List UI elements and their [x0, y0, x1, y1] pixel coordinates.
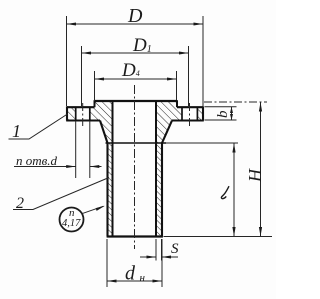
note circle leader arrow [82, 206, 104, 214]
dimension line dn [107, 280, 162, 282]
hatched section: flange left strip [67, 107, 76, 120]
svg-text:1: 1 [12, 121, 21, 141]
hole right: edges [182, 107, 197, 120]
outline: right cone taper [162, 121, 172, 144]
svg-text:n отв.d: n отв.d [16, 153, 58, 168]
dimension line D [67, 23, 204, 25]
extension line: D1 right [188, 46, 190, 106]
label l (rotated) [221, 186, 229, 198]
leader for part 2 [13, 178, 109, 210]
extension line: l top (from taper end across) handled above; extend to 238 [166, 142, 238, 144]
outline: bore left edge [112, 101, 114, 237]
outline: flange bottom right [172, 119, 204, 121]
extension line: D4 left [95, 71, 177, 100]
outline: flange top right [177, 106, 203, 108]
n otv d: extension lines below flange hole [76, 121, 90, 178]
centerline: left hole axis [82, 103, 84, 128]
hatched section: right hub/boss area [156, 101, 182, 143]
svg-text:D4: D4 [121, 60, 140, 81]
s: extension lines below tube [156, 239, 162, 261]
hatched section: right tube wall [156, 143, 162, 237]
hatched section: left tube wall [108, 143, 113, 237]
hole left: edges [76, 107, 90, 120]
extension line: bottom right [164, 236, 273, 238]
outline: bore right edge [155, 101, 157, 237]
svg-text:н: н [140, 272, 146, 284]
extension line: D1 left [81, 46, 83, 106]
svg-text:2: 2 [16, 195, 24, 212]
outline: flange bottom left [66, 119, 100, 121]
outline: flange left side [66, 106, 68, 120]
outline: boss right side [176, 100, 178, 107]
dimension line D1 [82, 52, 189, 54]
n otv d: dimension line with outside arrows [14, 166, 102, 168]
outline: boss left side [94, 100, 96, 107]
dimension line l [233, 143, 235, 237]
svg-text:b: b [215, 110, 231, 118]
centerline: right hole axis [189, 103, 191, 128]
hatched section: right flange strip [197, 107, 203, 120]
extension line: D left [66, 16, 68, 106]
svg-text:d: d [125, 263, 136, 285]
dimension line D4 [95, 78, 177, 80]
dimension line H [260, 102, 262, 237]
dn: extension lines below tube [107, 239, 162, 287]
centerline: main axis [134, 85, 136, 249]
outline: tube outer left wall [106, 143, 108, 237]
svg-text:D: D [127, 5, 143, 27]
centerline: H top extension dash-dot [204, 101, 267, 103]
outline: internal step edge at taper end [106, 142, 167, 144]
outline: flange top left [67, 106, 95, 108]
svg-text:H: H [245, 168, 265, 183]
leader for part 1 [9, 114, 68, 139]
svg-text:S: S [171, 241, 179, 257]
note circle [60, 208, 84, 232]
s: dimension line with outside arrows [140, 256, 178, 258]
svg-text:D1: D1 [132, 35, 152, 56]
outline: flange right side [202, 106, 204, 120]
outline: tube outer right wall [161, 143, 163, 237]
hatched section: left hub/boss area [90, 101, 113, 143]
extension line: D right [202, 16, 204, 106]
outline: tube bottom face [107, 235, 163, 237]
dimension line b [231, 107, 233, 120]
svg-text:4,17: 4,17 [62, 218, 81, 229]
outline: left cone taper [100, 121, 108, 144]
outline: boss top face [95, 100, 178, 102]
extension lines: b top and bottom [205, 107, 237, 120]
